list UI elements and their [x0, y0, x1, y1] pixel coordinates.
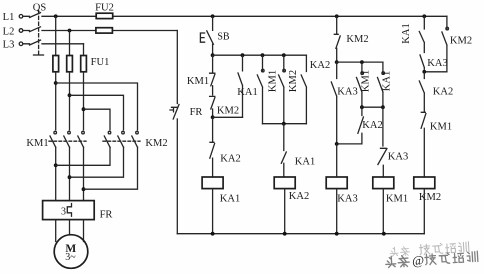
node ka3 coil join — [335, 142, 339, 146]
node rail KM1 branch — [261, 53, 265, 57]
contact KM2 NO right — [424, 27, 448, 72]
label FU2 — [95, 3, 114, 14]
svg-text:FU1: FU1 — [91, 57, 110, 68]
node crossover B — [68, 93, 72, 97]
watermark — [385, 241, 478, 270]
label KM2 top — [346, 34, 368, 45]
label KM2 vertical — [288, 70, 299, 92]
node bottom KM1 — [382, 232, 386, 236]
wire KM2 coil to bottom — [423, 189, 425, 234]
wire crossover B to KM2 mid — [70, 95, 124, 130]
svg-text:KA1: KA1 — [237, 87, 257, 98]
label KM2 main — [145, 138, 167, 149]
contact KA3 NC g3 — [378, 107, 387, 177]
svg-text:KM2: KM2 — [145, 138, 167, 149]
wire crossover A to KM2 right — [56, 83, 138, 130]
wire phase A FU1 to KM1 — [55, 72, 57, 130]
svg-text:L1: L1 — [3, 12, 15, 23]
node phase A tap — [54, 14, 58, 18]
contact KA1 NO g3 — [378, 62, 385, 107]
label KA2 coil — [289, 191, 309, 202]
svg-text:KM2: KM2 — [450, 36, 472, 47]
coil KA1 — [202, 177, 223, 189]
node ka1 top tap — [422, 14, 426, 18]
contact KM1 NO parallel — [257, 55, 264, 124]
fuse FU2a — [96, 13, 113, 18]
label KA2 right — [433, 87, 453, 98]
node lower A — [54, 163, 58, 167]
wire phase C FU1 to KM1 — [83, 72, 85, 130]
label KA1 coil — [220, 194, 240, 205]
node rail KA1 branch — [241, 53, 245, 57]
node lower C — [82, 187, 86, 191]
label KA1 vertical g3 — [382, 71, 393, 91]
node lower B — [68, 175, 72, 179]
wire g3 mid join — [362, 106, 383, 108]
contact FR NC — [170, 105, 179, 120]
svg-text:SB: SB — [217, 32, 230, 43]
wire phase B FU1 to KM1 — [69, 72, 71, 130]
node phase B tap — [68, 29, 72, 33]
svg-text:KA2: KA2 — [220, 154, 240, 165]
label KM1 right — [430, 122, 452, 133]
node group3 left — [335, 60, 339, 64]
wire phase A down to FU1 — [55, 16, 57, 55]
label FR contact — [190, 107, 203, 118]
svg-text:L2: L2 — [3, 26, 15, 37]
wire phase A KM1 to FR — [55, 147, 57, 200]
node group3 mid — [360, 60, 364, 64]
switch QS pole 1 — [23, 13, 56, 18]
contactor KM1 linkage dashed — [49, 140, 86, 142]
svg-text:KM1: KM1 — [386, 194, 408, 205]
label SB — [217, 32, 230, 43]
node bottom KA2 — [283, 232, 287, 236]
contact KA1 NO ka2coil — [281, 124, 286, 177]
svg-text:KA3: KA3 — [388, 152, 408, 163]
contactor KM2 main contact 1 — [104, 131, 110, 147]
wire group3 top join — [337, 61, 383, 63]
contact KM2 NO branch1 — [210, 96, 215, 117]
node latch join — [211, 115, 215, 119]
label KA1 ka2coil — [295, 157, 315, 168]
label KA3 g3 — [337, 87, 357, 98]
contact KA3 NO g3 — [331, 62, 336, 144]
svg-text:3: 3 — [61, 207, 66, 218]
node KM2top tap — [335, 14, 339, 18]
svg-text:KA1: KA1 — [382, 71, 393, 91]
node rail SB — [211, 53, 215, 57]
svg-text:KM1: KM1 — [361, 70, 372, 92]
label KA1 latch — [237, 87, 257, 98]
node g3 mid right — [381, 105, 385, 109]
contact KA2 NC branch1 — [210, 117, 215, 177]
node parallel join — [282, 122, 286, 126]
wire KM1 coil to bottom — [382, 189, 384, 234]
label KM1 vertical — [268, 70, 279, 92]
contact KM2 NO top — [334, 16, 340, 62]
switch QS pole 2 — [23, 27, 70, 32]
svg-text:KA3: KA3 — [337, 87, 357, 98]
wire crossover C to KM2 left — [84, 109, 111, 130]
wire FR to motor A — [55, 220, 57, 242]
svg-text:KA1: KA1 — [401, 23, 412, 43]
label FU1 — [91, 57, 110, 68]
label KM2 branch1 — [217, 106, 239, 117]
motor M — [54, 235, 88, 269]
wire phase B down to FU1 — [69, 31, 71, 56]
label KM2 right — [450, 36, 472, 47]
wire KM2 right output — [84, 147, 138, 189]
wire phase C KM1 to FR — [83, 147, 85, 200]
contactor KM1 main contact 3 — [78, 131, 84, 147]
svg-text:FU2: FU2 — [95, 3, 114, 14]
contact KM1 NC right — [421, 112, 426, 177]
wire KM2 left output — [56, 147, 110, 165]
wire phase C down to FU1 — [83, 44, 85, 56]
label KA3 coil — [337, 194, 357, 205]
wire KM2 mid output — [70, 147, 124, 177]
contact KM1 NO g3 — [357, 62, 364, 107]
wire top rail corner KM2 — [446, 16, 448, 29]
wire KA1 coil to bottom — [212, 189, 214, 234]
svg-text:KM2: KM2 — [419, 192, 441, 203]
node SB tap — [211, 14, 215, 18]
wire control left rail — [176, 31, 178, 234]
svg-text:KM2: KM2 — [346, 34, 368, 45]
svg-text:QS: QS — [33, 3, 47, 14]
coil KA2 — [274, 177, 295, 189]
label KA2 branch1 — [220, 154, 240, 165]
switch QS linkage dashed — [34, 11, 44, 56]
wire KA2 coil to bottom — [284, 189, 286, 234]
contact KA2 NO right — [419, 72, 424, 112]
contactor KM1 main contact 1 — [50, 131, 57, 147]
svg-text:FR: FR — [190, 107, 203, 118]
svg-text:KA2: KA2 — [310, 60, 330, 71]
fuse FU1 B — [67, 56, 73, 72]
svg-text:KA1: KA1 — [295, 157, 315, 168]
svg-text:KA2: KA2 — [433, 87, 453, 98]
label KA2 parallel — [310, 60, 330, 71]
button SB — [200, 16, 213, 55]
label KM1 vertical g3 — [361, 70, 372, 92]
label QS — [33, 3, 47, 14]
svg-text:KA1: KA1 — [220, 194, 240, 205]
svg-text:KM2: KM2 — [217, 106, 239, 117]
node L1 terminal — [3, 12, 23, 23]
contactor KM2 main contact 2 — [118, 131, 124, 147]
svg-text:KM1: KM1 — [26, 138, 48, 149]
label KM1 main — [26, 138, 48, 149]
svg-text:FR: FR — [100, 210, 113, 221]
label FR box — [100, 210, 113, 221]
node bottom KA1 — [211, 232, 215, 236]
contact KA1 NO right — [419, 16, 424, 52]
wire parallel join — [263, 123, 307, 125]
svg-text:KA3: KA3 — [427, 58, 447, 69]
svg-text:KM1: KM1 — [268, 70, 279, 92]
contact KA2 NO parallel — [301, 55, 306, 124]
wire L2 to control rail — [70, 30, 178, 32]
switch QS pole 3 — [23, 40, 84, 45]
node L3 terminal — [3, 40, 23, 51]
fuse FU1 C — [81, 56, 87, 72]
node right join — [422, 70, 426, 74]
label KA1 vertical right — [401, 23, 412, 43]
wire latch join horizontal — [213, 116, 243, 118]
svg-text:L3: L3 — [3, 40, 15, 51]
svg-text:KM2: KM2 — [288, 70, 299, 92]
svg-text:KM1: KM1 — [430, 122, 452, 133]
relay FR thermal box — [43, 201, 95, 220]
fuse FU2b — [96, 28, 113, 33]
wire KA3 coil top — [336, 144, 338, 177]
node crossover A — [54, 81, 58, 85]
node crossover C — [82, 107, 86, 111]
contact KA3 NO right — [420, 55, 424, 72]
svg-text:3~: 3~ — [65, 252, 76, 263]
coil KA3 — [326, 177, 347, 189]
label KA3 right — [427, 58, 447, 69]
label KA3 NC — [388, 152, 408, 163]
wire FR to motor B — [69, 220, 71, 235]
svg-text:@: @ — [412, 252, 425, 268]
contactor KM2 linkage dashed — [103, 140, 140, 142]
svg-text:KM1: KM1 — [187, 76, 209, 87]
label KM2 coil — [419, 192, 441, 203]
node g3 mid left — [360, 105, 364, 109]
contact KM1 NC branch1 — [210, 55, 215, 95]
wire L1 top rail — [56, 15, 447, 17]
label KA2 g3 — [362, 120, 382, 131]
coil KM2 — [414, 177, 435, 189]
label KM1 coil — [386, 194, 408, 205]
wire KA3 coil to bottom — [336, 189, 338, 234]
contact KA1 latch — [238, 55, 243, 117]
contact KM2 NO parallel — [279, 55, 286, 124]
coil KM1 — [373, 177, 394, 189]
fuse FU1 A — [53, 56, 59, 72]
wire mid rail — [213, 54, 307, 56]
node rail KM2 branch — [282, 53, 286, 57]
contactor KM2 main contact 3 — [132, 131, 139, 147]
label KM1 branch1 — [187, 76, 209, 87]
node L2 terminal — [3, 26, 23, 37]
contactor KM1 main contact 2 — [64, 131, 70, 147]
wire FR to motor C — [83, 220, 85, 242]
node bottom KA3 — [335, 232, 339, 236]
svg-text:KA3: KA3 — [337, 194, 357, 205]
wire phase B KM1 to FR — [69, 147, 71, 200]
svg-text:KA2: KA2 — [289, 191, 309, 202]
contact KA2 NO g3 — [337, 107, 364, 144]
wire bottom rail — [177, 233, 424, 235]
svg-text:KA2: KA2 — [362, 120, 382, 131]
